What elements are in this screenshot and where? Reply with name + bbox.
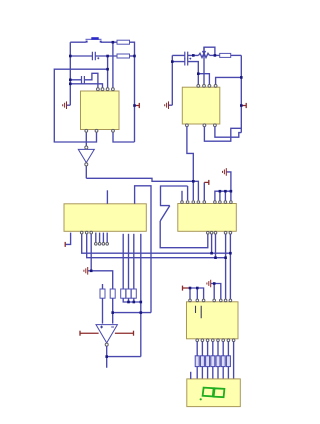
- potentiometer RV1 (zigzag with wiper arrow): [199, 47, 210, 85]
- resistor RN4: [211, 356, 215, 367]
- resistor RN6: [221, 356, 225, 367]
- junction dots U4 area: [210, 190, 232, 259]
- wire U4 right pins bus to ground: [215, 172, 231, 202]
- wire U3 pin b2 long to riser: [82, 233, 231, 254]
- power port bar down-left: [64, 242, 66, 247]
- wire left rail C: [171, 55, 173, 105]
- ground GND4 (signal ground): [223, 168, 227, 176]
- wire row4 cap path to IC1 pin1: [70, 73, 98, 88]
- wire U3 pin b4 to ground node: [90, 233, 92, 271]
- opamp + marker: [100, 326, 103, 329]
- resistor R6: [121, 289, 126, 298]
- resistor R5: [110, 289, 115, 298]
- pin circles U4 top: [181, 201, 233, 204]
- junction dots middle-left: [90, 270, 142, 358]
- wire IC2 pinC loop to rail: [215, 127, 241, 138]
- wire U3 top pin to long feedback rail: [135, 186, 151, 313]
- pin circles U2 bottom: [186, 124, 217, 127]
- capacitor C3 polarity mark: [189, 58, 191, 60]
- pin circle opamp output: [105, 343, 108, 346]
- wire row1 to cap: [172, 54, 198, 56]
- power port VCC1 bar right: [135, 103, 140, 108]
- ground GND1 (signal ground): [63, 101, 71, 109]
- wire R2 to right rail: [130, 55, 135, 57]
- pushbutton S1: [86, 37, 102, 42]
- wire U5 power pins: [190, 288, 204, 299]
- stub end circles: [95, 243, 109, 246]
- wire top row: [70, 41, 117, 43]
- capacitor C1: [92, 52, 95, 61]
- pin circles U1 bottom: [85, 129, 115, 132]
- wire R5 bottom to opamp inverting input: [112, 298, 114, 323]
- wires U5 bottom pins to resistor array: [197, 342, 233, 379]
- wire R3 to right rail: [231, 54, 242, 56]
- pin circles U4 bottom: [207, 231, 232, 234]
- resistor R3: [220, 53, 231, 57]
- power port VCC4 at U5: [183, 286, 191, 291]
- IC U4: [178, 204, 237, 232]
- wire buzzer output down: [85, 166, 87, 179]
- wire U4 stub pin t1: [181, 191, 183, 204]
- wire vertical to IC1 pin3: [107, 56, 109, 88]
- junction dots top-right block: [171, 54, 243, 107]
- op-amp U6 triangle: [96, 325, 117, 343]
- decimal point: [200, 398, 202, 400]
- wire pot to R3: [210, 54, 220, 56]
- buzzer LS1 (triangle): [78, 149, 94, 162]
- ground GND3 (signal ground): [84, 267, 91, 275]
- U5 internal tick marks: [196, 306, 202, 318]
- wire R1 to right rail: [130, 42, 135, 142]
- wire U3 pin to power bar: [66, 233, 71, 245]
- resistor R2: [117, 54, 130, 58]
- pin circles U3 bottom: [80, 231, 92, 234]
- wire vertical to IC1 pin4: [112, 42, 114, 88]
- wire U3 pins to divider resistors: [123, 234, 141, 302]
- resistor R1: [117, 40, 130, 44]
- wire left rail A: [54, 69, 107, 142]
- resistor R4 (floating top stub): [102, 284, 104, 289]
- opamp - marker: [111, 326, 114, 328]
- pin circles U5 top: [189, 299, 232, 302]
- wire row2: [70, 55, 117, 57]
- junction dots top-left block: [69, 41, 136, 107]
- display body: [187, 379, 241, 407]
- wire IC1 pin to buzzer: [85, 132, 87, 146]
- wire branch to pin: [198, 74, 209, 86]
- wire right rail D: [240, 55, 242, 132]
- wire H2 zigzag loop to U4 pins: [161, 186, 188, 206]
- IC U5: [187, 302, 239, 339]
- resistor R8: [131, 289, 136, 298]
- wire row2 cap to IC2: [172, 62, 198, 86]
- wire diagonal tail to U4 pin: [160, 221, 208, 248]
- resistor RN1: [195, 356, 199, 367]
- wire U4 bottom stub to net b3: [215, 234, 217, 258]
- wire diagonal segment: [160, 206, 170, 221]
- pin circles U2 top: [197, 85, 217, 88]
- pin circle buzzer top: [85, 146, 88, 149]
- wire bottom U left: [54, 132, 96, 142]
- wire U4 riser2 to U5: [229, 234, 231, 299]
- opamp power bar right: [115, 331, 134, 336]
- digit segments (green): [203, 388, 225, 398]
- wire U3 unconnected stubs: [96, 233, 107, 243]
- wire row5 to IC1 pin2: [70, 84, 102, 89]
- wire U4 bottom stub to net b2: [211, 234, 213, 253]
- wire ground node to R5 top: [91, 271, 113, 289]
- wire buzzer output H1 to U4: [86, 178, 198, 200]
- power port VCC2 bar right: [241, 103, 246, 108]
- resistor R7: [126, 289, 131, 298]
- ground GND2 (signal ground): [165, 101, 173, 109]
- IC U3: [64, 204, 146, 232]
- ground GND5 (signal ground): [207, 280, 211, 288]
- wire IC2 pinB loop to rail: [204, 127, 241, 142]
- wire U3 pin b3 long to riser: [87, 233, 226, 258]
- capacitor C1 polarity mark: [97, 57, 99, 59]
- resistor RN2: [200, 356, 204, 367]
- wire ground to U5 pins: [211, 284, 221, 300]
- wire H2 pin drop: [187, 186, 189, 200]
- wire opamp output node: [107, 346, 141, 368]
- wire IC2 pinA down to U4: [187, 127, 193, 201]
- capacitor C4: [185, 58, 188, 66]
- junction H1/IC2 vertical: [192, 180, 195, 183]
- wire U3 top stub pin: [106, 190, 108, 204]
- resistor RN7: [226, 356, 230, 367]
- power port VCC3 at U4: [203, 182, 205, 202]
- wire R4 bottom to opamp non-inverting input: [102, 298, 104, 323]
- wire pot wiper loop: [204, 47, 215, 55]
- pin circles U1 top: [97, 88, 115, 91]
- resistor RN3: [206, 356, 210, 367]
- wire U4 riser1 to U5: [225, 234, 227, 299]
- wire R6-R8 bottoms bus: [123, 298, 141, 302]
- wire node row y312: [113, 312, 151, 314]
- resistor RN5: [216, 356, 220, 367]
- display extra stub pin: [190, 372, 192, 379]
- wire rail to IC2 right pin: [216, 77, 242, 85]
- capacitor C3: [185, 52, 188, 60]
- capacitor C2: [82, 76, 85, 84]
- wire bus down to node: [140, 302, 142, 357]
- IC U1: [81, 91, 120, 130]
- IC U2: [182, 87, 220, 124]
- pin circles U5 bottom: [196, 339, 235, 342]
- wire inner rail B: [69, 42, 71, 105]
- opamp power bar left: [80, 331, 99, 336]
- pin circle buzzer out: [85, 163, 88, 166]
- junction dots U5 top: [189, 282, 216, 289]
- wire bottom U right: [113, 132, 135, 142]
